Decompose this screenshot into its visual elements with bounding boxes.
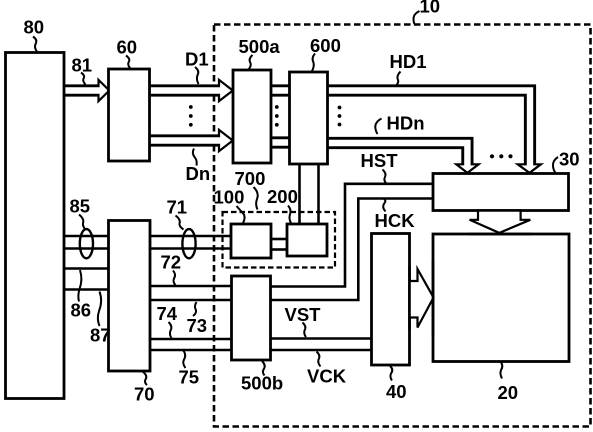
svg-text:HST: HST xyxy=(361,150,399,171)
svg-text:500a: 500a xyxy=(239,36,281,57)
svg-text:VCK: VCK xyxy=(307,366,347,387)
svg-text:40: 40 xyxy=(386,381,407,402)
svg-text:85: 85 xyxy=(70,196,91,217)
svg-text:HCK: HCK xyxy=(375,210,416,231)
svg-text:VST: VST xyxy=(285,304,322,325)
svg-text:72: 72 xyxy=(161,252,182,273)
svg-text:D1: D1 xyxy=(185,48,209,69)
svg-text:100: 100 xyxy=(214,186,245,207)
svg-text:87: 87 xyxy=(90,325,111,346)
svg-text:73: 73 xyxy=(187,315,208,336)
svg-text:86: 86 xyxy=(71,299,92,320)
svg-text:81: 81 xyxy=(72,55,93,76)
svg-text:10: 10 xyxy=(420,0,441,17)
svg-text:20: 20 xyxy=(498,382,519,403)
svg-text:60: 60 xyxy=(117,36,138,57)
svg-text:80: 80 xyxy=(24,17,45,38)
svg-text:200: 200 xyxy=(267,186,298,207)
svg-text:70: 70 xyxy=(134,384,155,405)
svg-text:75: 75 xyxy=(179,367,200,388)
svg-text:600: 600 xyxy=(310,35,341,56)
svg-text:HD1: HD1 xyxy=(390,51,427,72)
svg-text:30: 30 xyxy=(559,148,580,169)
svg-text:74: 74 xyxy=(157,303,178,324)
svg-text:Dn: Dn xyxy=(186,163,211,184)
svg-text:71: 71 xyxy=(167,197,188,218)
svg-text:HDn: HDn xyxy=(387,113,425,134)
svg-text:500b: 500b xyxy=(241,373,283,394)
